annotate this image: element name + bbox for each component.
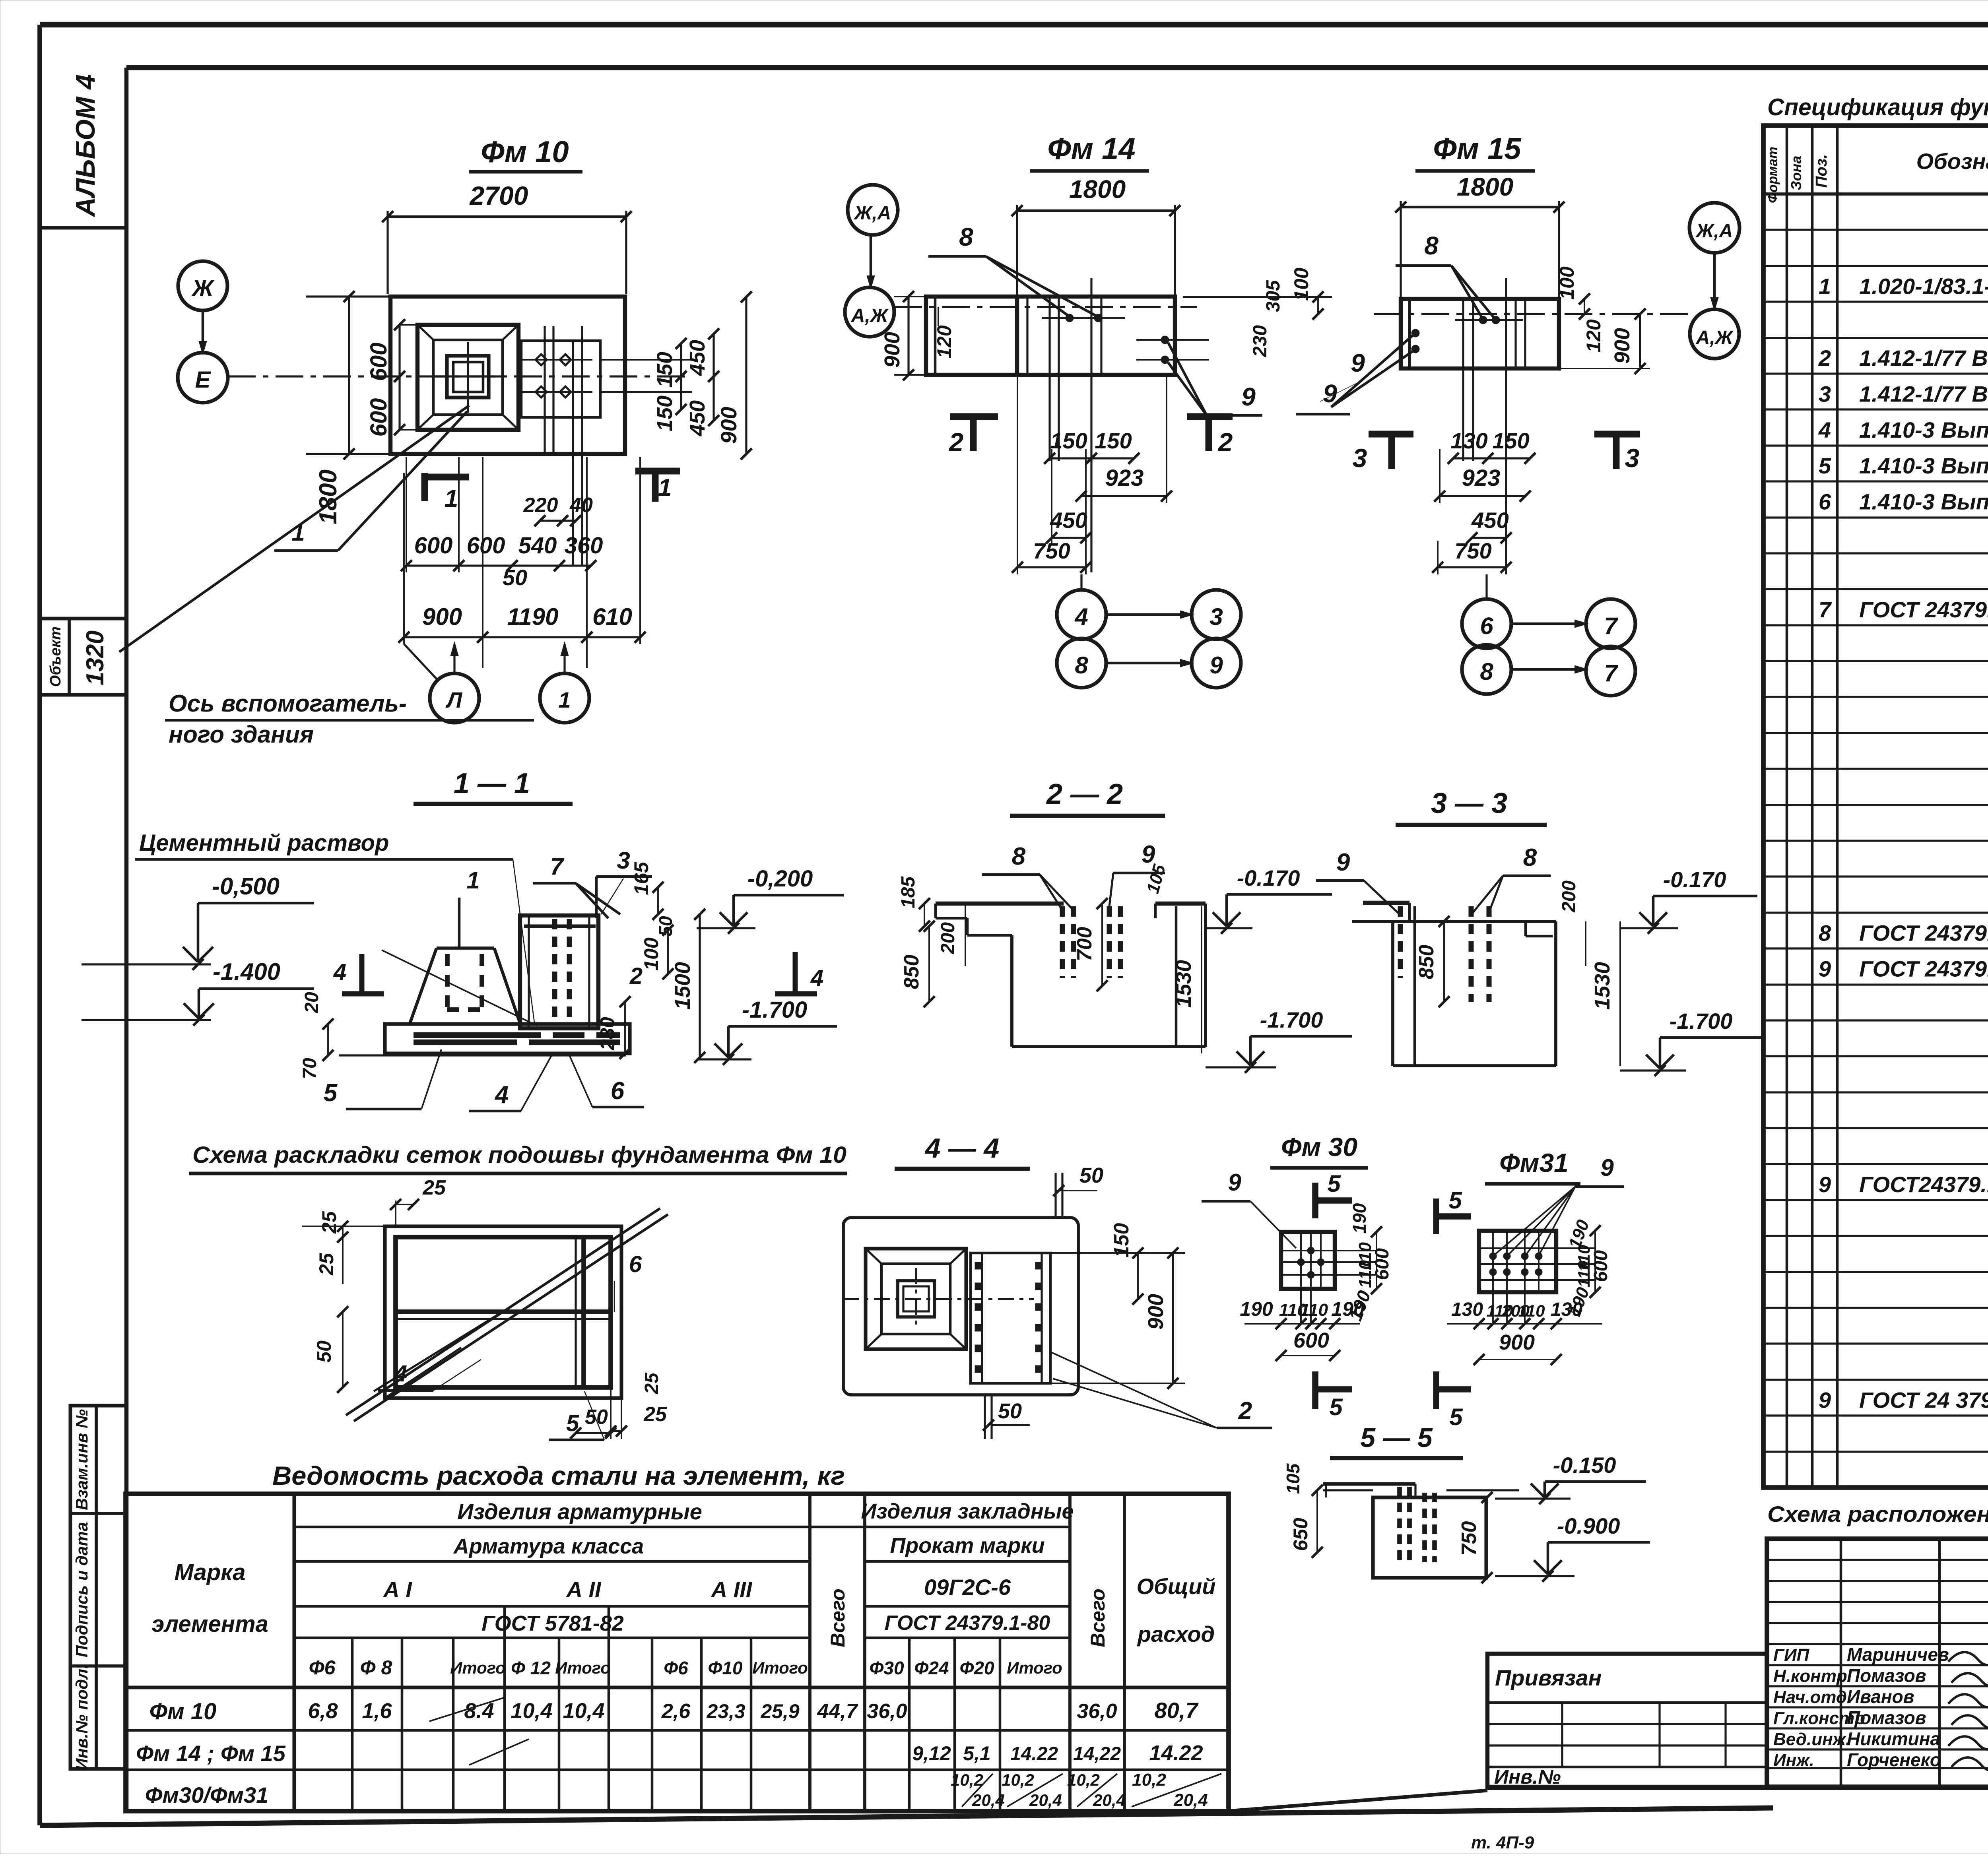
svg-text:190: 190 [1240, 1298, 1273, 1320]
svg-text:Горченеко: Горченеко [1847, 1749, 1941, 1770]
dimension 923 Fm15 [1434, 449, 1531, 503]
svg-text:923: 923 [1462, 465, 1501, 491]
dims Fm31 right [1565, 1217, 1611, 1319]
svg-text:5,1: 5,1 [963, 1742, 991, 1765]
section 5-5 bolts [1400, 1487, 1435, 1562]
section mark 5 bottom Fm30 [1315, 1371, 1352, 1420]
svg-text:Всего: Всего [1087, 1588, 1109, 1647]
svg-text:36,0: 36,0 [867, 1700, 907, 1723]
sidebar album label [40, 74, 126, 228]
svg-text:ГИП: ГИП [1773, 1645, 1810, 1665]
svg-text:Фм 10: Фм 10 [481, 135, 569, 169]
label 9 section 3-3 [1316, 849, 1400, 914]
label 1 section [459, 867, 480, 949]
svg-text:Ф20: Ф20 [959, 1658, 994, 1678]
svg-text:Фм 10: Фм 10 [149, 1699, 217, 1724]
svg-text:Ф 12: Ф 12 [511, 1658, 551, 1678]
svg-text:2700: 2700 [469, 181, 528, 210]
svg-text:-0.150: -0.150 [1553, 1453, 1616, 1478]
svg-text:2 — 2: 2 — 2 [1046, 778, 1123, 810]
mesh labels 4 5 6 [378, 1251, 642, 1440]
title section 2-2 [1010, 778, 1165, 816]
svg-text:4: 4 [1818, 417, 1831, 442]
svg-text:8: 8 [1819, 920, 1831, 945]
spec table header [1765, 138, 1988, 203]
section 5-5 dims [1283, 1463, 1493, 1583]
svg-text:1.410-3 Вып.1: 1.410-3 Вып.1 [1859, 489, 1988, 514]
svg-text:25: 25 [643, 1403, 667, 1426]
svg-text:Ф30: Ф30 [869, 1658, 904, 1678]
section mark 1 left [425, 473, 469, 512]
svg-text:-1.700: -1.700 [1670, 1008, 1733, 1034]
svg-text:36,0: 36,0 [1077, 1700, 1117, 1723]
axis circle Zh [178, 261, 227, 353]
svg-text:1: 1 [466, 867, 480, 894]
svg-text:900: 900 [1499, 1330, 1535, 1354]
level -1.700 3-3 [1620, 1008, 1761, 1076]
steel table row Fm14 Fm15 [136, 1739, 1203, 1766]
steel table row Fm30 Fm31 [145, 1770, 1221, 1810]
title section 1-1 [414, 768, 573, 804]
note cement mortar [135, 830, 535, 1026]
svg-text:5: 5 [1448, 1187, 1462, 1214]
svg-text:1800: 1800 [1457, 173, 1513, 201]
svg-text:А I: А I [382, 1577, 412, 1602]
svg-text:190: 190 [1331, 1298, 1365, 1320]
svg-text:650: 650 [1289, 1518, 1312, 1551]
svg-text:8: 8 [1075, 652, 1088, 679]
svg-text:130: 130 [1551, 1299, 1582, 1320]
svg-text:1320: 1320 [82, 630, 109, 685]
svg-text:Л: Л [445, 687, 463, 712]
dimension 923 Fm14 [1076, 375, 1172, 503]
svg-text:1: 1 [658, 474, 672, 502]
svg-text:ГОСТ 5781-82: ГОСТ 5781-82 [481, 1612, 624, 1635]
svg-text:900: 900 [1144, 1294, 1168, 1330]
svg-text:Арматура класса: Арматура класса [453, 1534, 644, 1558]
svg-text:9: 9 [1819, 1172, 1831, 1197]
svg-text:ГОСТ 24379.1-80: ГОСТ 24379.1-80 [885, 1612, 1050, 1635]
svg-text:1530: 1530 [1590, 962, 1614, 1010]
svg-text:Цементный раствор: Цементный раствор [139, 830, 389, 856]
section 4-4 dim 150 900 [1050, 1223, 1185, 1389]
title block signature table [1767, 1539, 1988, 1787]
svg-text:Фм 30: Фм 30 [1281, 1132, 1357, 1162]
svg-text:185: 185 [898, 876, 919, 908]
svg-text:Схема раскладки сеток подошвы: Схема раскладки сеток подошвы фундамента… [192, 1142, 846, 1168]
svg-text:-0.900: -0.900 [1557, 1513, 1620, 1538]
title Fm10 [469, 135, 582, 172]
svg-text:25: 25 [641, 1372, 662, 1394]
svg-text:Вед.инж.: Вед.инж. [1773, 1730, 1850, 1749]
svg-text:Фм 14: Фм 14 [1047, 132, 1135, 166]
dimension 900 right [716, 291, 752, 460]
label 8 Fm14 [928, 223, 1097, 316]
svg-text:450: 450 [685, 340, 709, 376]
section 4-4 dim 50 bottom [983, 1395, 1030, 1439]
svg-text:2: 2 [1238, 1397, 1252, 1425]
spec table grid [1763, 126, 1988, 1488]
svg-text:Е: Е [195, 367, 212, 393]
dimension 450 Fm15 [1466, 508, 1512, 543]
svg-text:А III: А III [711, 1577, 753, 1602]
svg-text:9: 9 [1600, 1154, 1614, 1181]
svg-text:Итого: Итого [450, 1658, 506, 1677]
plan Fm10 pedestal [417, 325, 518, 430]
section 4-4 mesh plate [971, 1253, 1050, 1383]
svg-text:900: 900 [1610, 328, 1634, 364]
section mark 5 top Fm31 [1436, 1187, 1471, 1234]
svg-text:1,6: 1,6 [362, 1699, 392, 1723]
svg-text:8: 8 [1424, 231, 1439, 260]
svg-text:Иванов: Иванов [1847, 1686, 1914, 1707]
svg-text:Нач.отд.: Нач.отд. [1773, 1687, 1852, 1707]
svg-text:-0.170: -0.170 [1663, 867, 1726, 892]
svg-text:6: 6 [1480, 613, 1493, 639]
svg-text:3 — 3: 3 — 3 [1431, 787, 1507, 819]
svg-text:900: 900 [422, 603, 462, 630]
section mark 2 right [1187, 417, 1233, 457]
svg-text:3: 3 [1353, 443, 1367, 473]
svg-text:-1.700: -1.700 [1260, 1007, 1323, 1032]
svg-text:150: 150 [1095, 428, 1132, 453]
section 3-3 body [1352, 903, 1556, 1066]
svg-text:Объект: Объект [47, 626, 64, 687]
dimension 900 1190 610 [398, 457, 646, 668]
svg-text:600: 600 [467, 533, 505, 559]
svg-text:ГОСТ 24379.1-80: ГОСТ 24379.1-80 [1859, 597, 1988, 622]
svg-text:4: 4 [494, 1081, 509, 1109]
title section 3-3 [1396, 787, 1547, 825]
svg-text:150: 150 [653, 352, 677, 388]
svg-text:750: 750 [1033, 538, 1070, 563]
svg-text:25,9: 25,9 [760, 1700, 800, 1722]
section mark 5 bottom Fm31 [1436, 1371, 1471, 1430]
svg-text:-1.700: -1.700 [742, 997, 807, 1023]
svg-text:1.412-1/77 Вып.3: 1.412-1/77 Вып.3 [1859, 381, 1988, 406]
svg-text:1: 1 [291, 519, 305, 546]
level -0.170 3-3 [1620, 867, 1757, 934]
svg-text:Спецификация фундаментов Фм: Спецификация фундаментов Фм 10 ; Фм 14 ;… [1767, 94, 1988, 120]
axis circle ZhA Fm14 [848, 185, 898, 287]
svg-text:1.020-1/83.1-1: 1.020-1/83.1-1 [1859, 273, 1988, 299]
section 2-2 body [936, 904, 1206, 1047]
svg-text:450: 450 [1471, 508, 1508, 533]
svg-text:А,Ж: А,Ж [1696, 327, 1734, 348]
svg-text:190: 190 [1349, 1203, 1370, 1233]
svg-text:5: 5 [1819, 453, 1831, 478]
dimension 600 600 left [366, 319, 489, 436]
svg-text:120: 120 [933, 325, 955, 359]
section mark 3 left [1353, 434, 1413, 473]
svg-text:130: 130 [1451, 1299, 1483, 1320]
svg-text:Ж: Ж [191, 275, 215, 301]
svg-text:9: 9 [1241, 382, 1256, 411]
svg-text:Фм31: Фм31 [1499, 1148, 1569, 1177]
svg-text:600: 600 [1293, 1328, 1329, 1352]
svg-text:1: 1 [445, 485, 458, 512]
svg-text:10,4: 10,4 [563, 1699, 604, 1723]
sidebar stamp boxes [70, 1406, 126, 1771]
svg-text:Инв.№ подл.: Инв.№ подл. [72, 1664, 91, 1770]
svg-text:923: 923 [1105, 465, 1144, 491]
steel table headers [151, 1499, 1215, 1679]
svg-text:Обозначение: Обозначение [1916, 149, 1988, 174]
svg-text:7: 7 [1604, 660, 1618, 687]
dimension 220 40 [523, 494, 593, 526]
level -0.500 [82, 873, 314, 970]
svg-text:Ж,А: Ж,А [1695, 221, 1733, 242]
plan Fm14 inner verticals [1017, 278, 1101, 572]
label 8 Fm15 [1396, 231, 1494, 318]
section mark 1 right [635, 471, 680, 502]
svg-text:7: 7 [550, 853, 564, 880]
svg-text:4: 4 [1074, 603, 1088, 630]
svg-text:А II: А II [565, 1577, 602, 1602]
dimension 600 600 540 360 [401, 457, 603, 572]
svg-text:расход: расход [1137, 1621, 1215, 1647]
ref circles 4-3 8-9 [1057, 574, 1241, 688]
svg-text:450: 450 [1050, 508, 1087, 533]
svg-text:2: 2 [948, 427, 964, 457]
svg-text:10,2: 10,2 [1002, 1771, 1034, 1789]
label 7 section [533, 853, 620, 918]
signature rows text [1773, 1644, 1988, 1771]
plan Fm30 [1281, 1232, 1376, 1324]
svg-text:900: 900 [716, 407, 741, 444]
axis centerline horizontal Fm10 [228, 375, 692, 377]
svg-text:ГОСТ24379.1-80: ГОСТ24379.1-80 [1859, 1172, 1988, 1197]
svg-text:-0,200: -0,200 [747, 866, 813, 892]
svg-text:Изделия закладные: Изделия закладные [861, 1499, 1074, 1523]
svg-text:Прокат марки: Прокат марки [890, 1534, 1044, 1557]
sidebar object box [40, 619, 126, 695]
svg-text:200: 200 [938, 922, 959, 954]
title mesh layout scheme [189, 1142, 847, 1173]
svg-text:8: 8 [1523, 844, 1537, 871]
svg-text:230: 230 [1250, 325, 1271, 357]
svg-text:3: 3 [1819, 381, 1831, 406]
svg-text:Фм30/Фм31: Фм30/Фм31 [145, 1782, 268, 1808]
level -1.700 left [697, 997, 837, 1065]
label 9 section 2-2 [1109, 841, 1169, 906]
plan Fm15 bolts [1411, 316, 1523, 353]
svg-text:80,7: 80,7 [1155, 1698, 1199, 1723]
svg-text:600: 600 [1372, 1248, 1393, 1280]
svg-text:Ось вспомогатель-: Ось вспомогатель- [169, 690, 407, 717]
svg-text:2: 2 [629, 963, 643, 989]
spec table content [1818, 203, 1988, 1485]
svg-text:ГОСТ 24 379.1- 80: ГОСТ 24 379.1- 80 [1859, 1387, 1988, 1412]
privyazan block [1487, 1654, 1767, 1788]
svg-text:1800: 1800 [1069, 175, 1126, 204]
section mark 2 left [948, 417, 998, 457]
svg-text:50: 50 [998, 1399, 1022, 1423]
plan Fm14 outline [926, 297, 1175, 375]
svg-text:280: 280 [596, 1017, 619, 1051]
svg-text:Итого: Итого [752, 1658, 808, 1677]
axis circle E [178, 353, 228, 403]
plan Fm10 bolts [517, 354, 592, 398]
svg-text:Фм 14 ; Фм 15: Фм 14 ; Фм 15 [136, 1741, 286, 1766]
svg-text:1190: 1190 [507, 603, 558, 630]
svg-text:-0.170: -0.170 [1237, 865, 1300, 890]
svg-text:105: 105 [1283, 1463, 1303, 1494]
section 3-3 dims [1415, 880, 1620, 1066]
dimension 750 Fm15 [1432, 538, 1512, 574]
svg-text:Взам.инв №: Взам.инв № [72, 1409, 91, 1510]
svg-text:600: 600 [1590, 1250, 1611, 1282]
dimension 100 305 230 Fm14 right [1183, 268, 1332, 357]
svg-text:Ф6: Ф6 [309, 1656, 336, 1679]
svg-text:5 — 5: 5 — 5 [1360, 1423, 1433, 1453]
svg-text:6,8: 6,8 [308, 1699, 338, 1723]
mesh dims bottom [570, 1372, 667, 1439]
svg-text:3: 3 [1209, 603, 1223, 630]
svg-text:110: 110 [1300, 1300, 1328, 1320]
note axis auxiliary building [165, 690, 534, 748]
section 5-5 body [1323, 1484, 1519, 1578]
svg-text:150: 150 [1050, 428, 1087, 453]
svg-text:25: 25 [315, 1253, 338, 1276]
label 8 section 2-2 [982, 843, 1074, 910]
mesh dims left [302, 1211, 394, 1393]
section mark 5 top Fm30 [1315, 1170, 1352, 1218]
svg-text:23,3: 23,3 [706, 1700, 745, 1722]
svg-text:7: 7 [1604, 613, 1618, 639]
dimension 1800 Fm15 [1395, 173, 1565, 299]
bottom scan fragments [1471, 1833, 1988, 1854]
svg-text:9: 9 [1819, 1387, 1831, 1412]
svg-text:1.410-3 Вып.1: 1.410-3 Вып.1 [1859, 453, 1988, 478]
svg-text:Итого: Итого [1007, 1658, 1062, 1677]
svg-text:Всего: Всего [827, 1588, 849, 1647]
svg-text:Привязан: Привязан [1495, 1665, 1602, 1690]
svg-text:110: 110 [1518, 1301, 1545, 1320]
svg-text:9: 9 [1819, 956, 1831, 981]
section 4-4 pedestal [843, 1249, 1034, 1349]
dimension 100 Fm15 [1556, 266, 1590, 320]
svg-text:1.412-1/77 Вып.3: 1.412-1/77 Вып.3 [1859, 345, 1988, 370]
svg-text:Никитина: Никитина [1847, 1728, 1940, 1749]
svg-text:6: 6 [611, 1077, 625, 1105]
svg-text:Формат: Формат [1765, 147, 1780, 203]
svg-text:элемента: элемента [151, 1611, 268, 1637]
section 1-1 dims right [299, 861, 705, 1079]
svg-text:305: 305 [1263, 280, 1284, 312]
title Fm30 [1270, 1132, 1368, 1168]
svg-text:ного здания: ного здания [169, 721, 314, 748]
dimension 120 900 Fm15 right [1559, 308, 1650, 374]
svg-text:8: 8 [959, 223, 973, 251]
mesh dims top [390, 1176, 446, 1228]
level -1.400 [82, 958, 314, 1026]
svg-text:750: 750 [1454, 538, 1491, 563]
svg-text:50: 50 [503, 565, 527, 590]
svg-text:8: 8 [1480, 658, 1493, 685]
svg-text:20,4: 20,4 [1093, 1791, 1126, 1809]
dimension 150 150 Fm14 [1044, 428, 1140, 464]
svg-text:10,2: 10,2 [1132, 1770, 1166, 1790]
svg-text:40: 40 [569, 494, 593, 517]
svg-text:10,4: 10,4 [511, 1699, 552, 1723]
plan Fm15 outline [1401, 299, 1559, 368]
svg-text:9: 9 [1228, 1169, 1241, 1196]
mark 4 section 2-2 [775, 952, 823, 994]
svg-text:165: 165 [630, 861, 652, 895]
section 1-1 mark 4 [333, 954, 384, 994]
svg-text:Ф24: Ф24 [914, 1658, 949, 1678]
svg-text:Изделия арматурные: Изделия арматурные [457, 1499, 702, 1524]
svg-text:3: 3 [1625, 443, 1640, 473]
svg-text:5: 5 [1449, 1404, 1463, 1430]
steel table grid [126, 1494, 1229, 1811]
level -0.150 [1495, 1453, 1646, 1504]
svg-text:Марка: Марка [174, 1559, 245, 1585]
svg-text:Схема расположения фундаментов: Схема расположения фундаментов дана на л… [1767, 1501, 1988, 1526]
plan Fm15 inner verticals [1463, 278, 1525, 574]
dimension 750 Fm14 [1012, 375, 1091, 574]
dimension 1800 Fm14 [1011, 175, 1180, 297]
svg-text:9: 9 [1336, 849, 1350, 876]
ref circles 6-7 8-7 [1462, 574, 1635, 696]
svg-text:Итого: Итого [555, 1658, 611, 1677]
svg-text:20,4: 20,4 [972, 1791, 1005, 1809]
svg-text:450: 450 [685, 400, 709, 436]
svg-text:1: 1 [1819, 273, 1831, 299]
svg-text:1.410-3 Вып.1: 1.410-3 Вып.1 [1859, 417, 1988, 442]
dimension 450 450 right [685, 328, 719, 436]
section 4-4 label 2 [1050, 1352, 1272, 1428]
title section 4-4 [895, 1133, 1030, 1169]
level -0.170 right 2-2 [1206, 865, 1332, 934]
label 9 Fm15 [1320, 335, 1413, 407]
svg-text:360: 360 [565, 533, 603, 559]
svg-text:7: 7 [1819, 597, 1832, 622]
label 8 section 3-3 [1473, 844, 1551, 912]
section 1-1 column [520, 915, 598, 1028]
dims Fm30 bottom [1240, 1298, 1365, 1361]
svg-text:220: 220 [523, 494, 558, 517]
dimension 130 150 Fm15 [1448, 428, 1536, 464]
dims Fm30 right [1345, 1203, 1393, 1323]
svg-text:5: 5 [324, 1079, 338, 1107]
svg-text:540: 540 [518, 533, 557, 559]
svg-text:Ф 8: Ф 8 [360, 1656, 392, 1679]
svg-text:120: 120 [1582, 319, 1605, 353]
level -0.200 [697, 866, 844, 934]
svg-text:9: 9 [1209, 652, 1223, 679]
svg-text:50: 50 [1079, 1164, 1103, 1187]
svg-text:1 — 1: 1 — 1 [454, 768, 530, 799]
section 4-4 dim 50 top [1053, 1164, 1103, 1218]
svg-text:10,2: 10,2 [951, 1771, 983, 1789]
axis circle AZh Fm15 [1690, 309, 1739, 359]
section mark 3 right [1594, 434, 1640, 473]
label 9 Fm14 [1168, 343, 1350, 415]
title Fm31 [1485, 1148, 1580, 1184]
svg-text:5: 5 [1327, 1170, 1341, 1197]
plan Fm10 outline [390, 297, 625, 454]
svg-text:20,4: 20,4 [1173, 1790, 1208, 1810]
svg-text:4: 4 [394, 1361, 407, 1387]
svg-text:10,2: 10,2 [1067, 1771, 1100, 1789]
svg-text:09Г2С-6: 09Г2С-6 [924, 1575, 1011, 1600]
section 2-2 anchor bolts [1062, 906, 1120, 978]
steel table row Fm10 [149, 1697, 1199, 1724]
svg-text:50: 50 [313, 1340, 335, 1363]
section 2-2 dims [898, 876, 1202, 1053]
